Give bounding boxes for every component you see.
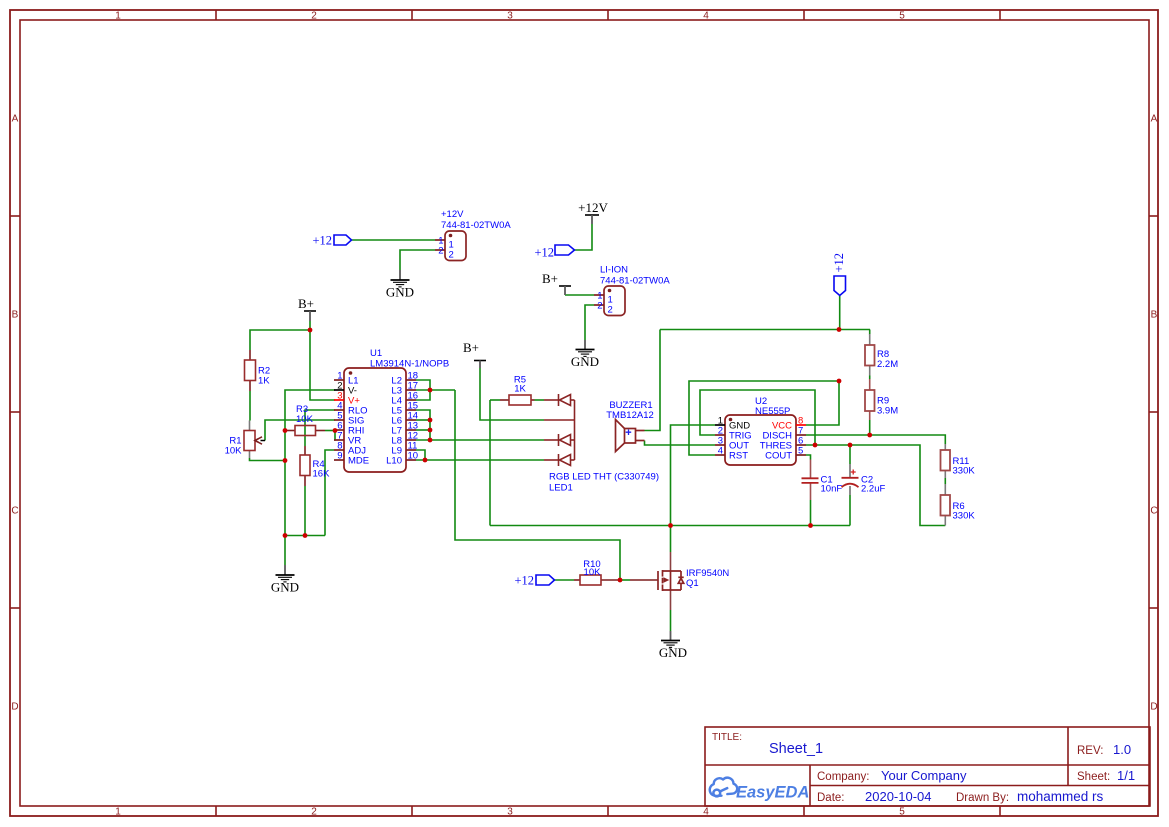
U2 pin 5 COUT [765,446,806,462]
svg-text:10K: 10K [296,414,314,425]
ground GND (under Q1) [659,631,687,660]
potentiometer R1 [225,431,265,457]
svg-text:Date:: Date: [817,792,845,804]
wire U1 ADJ pin8 to GND rail [325,450,334,536]
netflag B+ (LED rail) [463,340,486,368]
junction R3 left / V- rail [283,428,288,433]
svg-text:C: C [11,506,18,517]
svg-text:10nF: 10nF [821,484,843,495]
svg-text:RGB LED THT (C330749): RGB LED THT (C330749) [549,472,659,483]
svg-text:5: 5 [899,807,905,818]
lead R4 bottom [304,476,306,487]
U1 pin 15 L5 [391,401,418,417]
junction R1 bottom / V- rail [283,458,288,463]
lead C2 top [849,464,851,478]
U1 pin 12 L8 [391,431,418,447]
lead R1 top [249,421,251,431]
wire +12 flag down [839,296,841,330]
svg-text:B+: B+ [298,296,314,311]
wire U1 pin11 to pin10 [416,450,425,460]
lead R10 right [601,579,620,581]
lead C2 bottom [849,486,851,495]
wire vertical x455 down [455,390,620,580]
svg-text:Sheet:: Sheet: [1077,771,1110,783]
MOSFET Q1 IRF9540N [658,568,729,591]
netflag +12 (VCC rail, vertical) [832,253,846,296]
svg-text:TMB12A12: TMB12A12 [606,410,654,421]
svg-text:9: 9 [337,451,342,462]
svg-text:1/1: 1/1 [1117,768,1135,783]
svg-text:1: 1 [115,11,121,22]
wire U1 RLO pin4 to R4 top [305,410,335,446]
svg-text:B: B [12,310,19,321]
U1 pin 17 L3 [391,381,418,397]
svg-text:A: A [12,114,19,125]
svg-text:D: D [11,702,18,713]
lead R11 top [944,444,946,450]
svg-text:D: D [1150,702,1157,713]
svg-text:Q1: Q1 [686,578,699,589]
junction U1 pin 13 [428,428,433,433]
wire GND rail bottom left [285,535,325,537]
U1 pin 2 V- [334,381,357,397]
wire R9 bottom to DISCH net [869,420,871,435]
svg-text:10: 10 [408,451,419,462]
junction B+ / R2 / V+ [308,328,313,333]
lead R3 left [285,430,295,432]
svg-text:2: 2 [311,807,317,818]
op-amp/IC U1 LM3914N-1/NOPB [334,348,449,472]
ground GND (left rail) [271,565,299,595]
lead R6 bottom [944,516,946,526]
resistor R6 [941,495,976,522]
svg-text:Company:: Company: [817,771,869,783]
svg-text:REV:: REV: [1077,745,1103,757]
svg-text:2.2uF: 2.2uF [861,484,885,495]
diode blue [544,459,559,461]
U1 pin 11 L9 [391,441,417,457]
U1 pin 9 MDE [334,451,369,467]
junction U1 pin 10 [423,458,428,463]
svg-text:3: 3 [507,807,513,818]
svg-text:744-81-02TW0A: 744-81-02TW0A [600,276,670,287]
wire C2 bottom to rail [849,495,851,526]
U1 pin 10 L10 [386,451,418,467]
svg-text:LI-ION: LI-ION [600,265,628,276]
svg-text:Drawn By:: Drawn By: [956,792,1009,804]
svg-text:2.2M: 2.2M [877,359,898,370]
U2 pin 3 OUT [715,436,749,452]
U1 pin 6 RHI [334,421,364,437]
resistor R3 [295,404,316,436]
netflag +12V bar [578,200,608,224]
wire B+ node down to U1 V+ pin3 [310,330,335,400]
svg-text:+12V: +12V [578,200,608,215]
U2 pin 1 GND [715,416,750,432]
wire +12 rail top [660,329,870,331]
U2 pin 2 TRIG [715,426,752,442]
svg-text:MDE: MDE [348,456,369,467]
svg-text:4: 4 [718,446,723,457]
wire U2 GND pin1 to MOSFET drain [671,425,716,552]
lead R5 left [500,399,509,401]
junction TRIG loop / THRES [813,443,818,448]
svg-text:B: B [1151,310,1158,321]
wire U1 pin17 to vertical [416,389,455,391]
svg-text:Sheet_1: Sheet_1 [769,741,823,757]
junction dots [283,327,873,582]
svg-text:RST: RST [729,451,748,462]
netflag B+ (left, feeds R2/U1) [298,296,316,321]
svg-text:+12: +12 [312,234,332,248]
svg-text:2: 2 [449,250,454,261]
resistor R9 [865,390,898,417]
wire B+ to R5 left / LED rail vertical [490,399,500,401]
svg-text:L10: L10 [386,456,402,467]
capacitor C1 [802,475,843,495]
svg-text:C: C [1150,506,1157,517]
EasyEDA logo [710,778,810,802]
netflag +12 (R10 gate drive) [514,574,554,588]
svg-text:Your Company: Your Company [881,768,967,783]
svg-text:B+: B+ [463,340,479,355]
wire +12V bar flag to +12 flag [575,224,593,250]
wire R2 bottom to R1 top [249,391,251,421]
wire R8 R9 mid gap [869,376,871,380]
netflag +12 (to P1) [312,234,351,248]
wire B+ flag to LED common tap [480,368,544,420]
wire B+ node to R2 top [250,321,310,350]
junction RHI / R3 right [333,428,338,433]
U1 pin 3 V+ [334,391,360,407]
ground GND (under LI-ION) [571,340,599,369]
svg-text:GND: GND [659,645,687,660]
junction R10 out / gate [618,578,623,583]
lead R9 bottom [869,411,871,420]
common anode bus [574,400,576,460]
resistor R5 [509,375,531,406]
svg-text:+12: +12 [534,246,554,260]
svg-text:A: A [1151,114,1158,125]
svg-text:LM3914N-1/NOPB: LM3914N-1/NOPB [370,359,449,370]
wire gate node green bit [620,579,630,581]
svg-text:4: 4 [703,807,709,818]
junction GND rail left [283,533,288,538]
svg-text:GND: GND [271,580,299,595]
TITLE BLOCK [705,727,1150,806]
junction switched rail / Q1 [668,523,673,528]
svg-text:10K: 10K [584,567,602,578]
wire R5 right to top LED [535,399,545,401]
svg-text:3: 3 [507,11,513,22]
junction C1 bottom [808,523,813,528]
U2 pin 8 VCC [772,416,806,432]
ground GND (under P1) [386,270,414,300]
wire pin10 net to bottom LED [416,459,544,461]
B+ tap lead [544,419,575,421]
svg-text:2: 2 [438,246,443,257]
svg-text:TITLE:: TITLE: [712,732,742,743]
svg-text:2: 2 [597,301,602,312]
svg-text:744-81-02TW0A: 744-81-02TW0A [441,220,511,231]
capacitor C2 (electrolytic) [842,470,886,495]
wire R8 top bit [869,330,871,335]
svg-text:LED1: LED1 [549,483,573,494]
wire C1 bottom to rail [810,500,812,526]
timer IC U2 NE555P [715,396,806,465]
U2 pin 7 DISCH [762,426,806,442]
wire +12 flag to R10 [555,579,575,581]
junction U1 pin 12 [428,438,433,443]
wire R3 right to U1 RHI pin6 [325,430,335,432]
lead R6 top [944,484,946,495]
svg-text:1: 1 [115,807,121,818]
U1 pin 4 RLO [334,401,368,417]
svg-text:5: 5 [899,11,905,22]
lead R8 top [869,334,871,345]
lead R9 top [869,379,871,390]
junction R9 bottom / DISCH [867,433,872,438]
lead C1 bottom [810,483,812,500]
lead R10 left [574,579,580,581]
resistor R8 [865,345,898,370]
wire pin12 net to middle LED [416,439,544,441]
netflag +12 (mid top) [534,245,574,260]
resistor R10 [580,559,601,585]
svg-text:2020-10-04: 2020-10-04 [865,789,932,804]
lead Q1 drain bottom [670,590,672,610]
U1 pin 16 L4 [391,391,418,407]
svg-text:1.0: 1.0 [1113,742,1131,757]
svg-text:330K: 330K [953,511,976,522]
lead Q1 gate [630,579,658,581]
junction U1 pin 14 [428,418,433,423]
resistor R4 [300,455,330,480]
svg-text:10K: 10K [225,446,243,457]
U1 pin 14 L6 [391,411,418,427]
netflag B+ (LI-ION) [542,271,571,295]
lead C1 top [810,460,812,479]
U1 pin 5 SIG [334,411,364,427]
wire U1 pins 15-12 bridge [416,410,430,440]
junction U1 pins 18-17-16 [428,388,433,393]
U1 pin 13 L7 [391,421,418,437]
svg-text:5: 5 [798,446,803,457]
wire U2 TRIG pin2 loop to THRES [700,390,815,445]
svg-text:U1: U1 [370,348,382,359]
lead R8 bottom [869,366,871,376]
connector P2 LI-ION 744-81-02TW0A [594,265,670,316]
wire U2 VCC pin8 to +12 vertical [806,381,839,425]
junction C2 top / THRES [848,443,853,448]
svg-text:1K: 1K [258,376,270,387]
junction +12 / top rail [837,327,842,332]
wire MOSFET source bottom to GND [670,610,672,631]
svg-text:330K: 330K [953,466,976,477]
lead Q1 source top [670,552,672,571]
wire R11 R6 mid gap [944,478,946,484]
svg-text:+12: +12 [514,574,534,588]
junction +12 / RST [837,379,842,384]
svg-text:GND: GND [386,285,414,300]
lead R3 right [316,430,326,432]
lead R1 bottom [249,451,251,459]
lead R5 right [531,399,535,401]
RGB LED LED1 (3 diodes + common bus) [544,394,575,466]
wire U1 SIG pin5 to R1 wiper [265,420,335,441]
svg-text:+12: +12 [832,253,846,273]
U1 pin 7 VR [334,431,361,447]
wire +12 flag to connector P1 pin1 [351,239,435,241]
wire LI-ION pin2 to GND [585,305,594,340]
junction R4 bottom [303,533,308,538]
wire buzzer plus to +12 rail [645,330,661,431]
U2 pin 6 THRES [760,436,806,452]
svg-text:GND: GND [571,354,599,369]
U1 pin 18 L2 [391,371,418,387]
wire buzzer minus to U2 OUT pin3 [645,441,716,446]
U1 pin 1 L1 [334,371,359,387]
wire R1 bottom to node [250,458,286,461]
svg-text:16K: 16K [313,469,331,480]
wire RHI to VR pin7 [334,431,335,441]
wire C2 top to THRES net [849,445,851,464]
wire U1 V- pin2 to left vertical [285,390,335,565]
lead R2 top [249,350,251,360]
lead R4 top [304,446,306,455]
connector P1 +12V 744-81-02TW0A [435,209,511,261]
svg-text:2: 2 [311,11,317,22]
svg-text:B+: B+ [542,271,558,286]
wire U1 pins 18-16 bridge [416,380,430,400]
resistor R11 [941,450,976,477]
svg-text:2: 2 [608,305,613,316]
U2 pin 4 RST [715,446,748,462]
wire switched ground rail y=525 [490,525,850,527]
U1 pin 8 ADJ [334,441,366,457]
wire U2 RST pin4 to +12 [689,381,839,455]
LED1 labels [549,472,659,494]
svg-text:mohammed rs: mohammed rs [1017,789,1104,804]
svg-text:+12V: +12V [441,209,464,220]
svg-text:NE555P: NE555P [755,406,790,417]
wire R4 bottom to rail [304,486,306,536]
wire U2 THRES pin6 to R6 bottom [806,445,945,526]
wire U2 COUT pin5 to C1 [806,455,811,460]
diode red [544,399,559,401]
wire U2 DISCH pin7 to R11 top [806,435,945,444]
diode green [544,439,559,441]
svg-text:1K: 1K [514,384,526,395]
resistor R2 [245,360,271,387]
svg-text:3.9M: 3.9M [877,406,898,417]
svg-text:COUT: COUT [765,451,792,462]
svg-text:4: 4 [703,11,709,22]
lead R11 bottom [944,471,946,479]
lead R2 bottom [249,381,251,392]
wire P1 pin2 to GND [400,250,435,270]
buzzer BUZZER1 [606,400,654,452]
wire B+ to LI-ION pin1 [565,294,594,296]
svg-text:EasyEDA: EasyEDA [736,784,809,802]
